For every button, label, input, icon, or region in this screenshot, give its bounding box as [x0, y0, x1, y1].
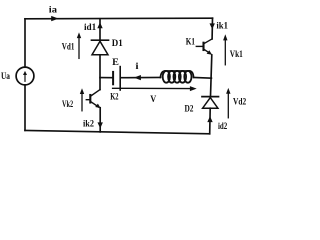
left branch wire lower (K2 to bottom) — [99, 108, 101, 132]
source Ua inner arrow line — [24, 74, 26, 82]
wire left upper — [24, 19, 26, 67]
arrow Vk2 line — [81, 93, 83, 111]
svg-text:D1: D1 — [112, 39, 123, 49]
svg-text:ik1: ik1 — [216, 21, 228, 31]
arrowhead id2 (up) — [207, 116, 212, 122]
source Ua circle — [16, 67, 34, 85]
left branch wire middle (D1 to K2) — [99, 55, 101, 90]
svg-text:D2: D2 — [185, 104, 194, 114]
arrowhead V (right) — [190, 86, 197, 91]
inductor L left shoulder — [160, 71, 165, 78]
arrowhead id1 (up) — [97, 22, 102, 28]
arrowhead ik2 (down) — [98, 122, 103, 128]
right branch wire lower (D2 to bottom) — [209, 108, 212, 134]
transistor K1 base stub — [196, 45, 203, 47]
transistor K1 collector line — [204, 39, 212, 44]
arrow Vd1 line — [78, 38, 80, 59]
svg-text:K1: K1 — [186, 38, 195, 48]
arrowhead Vk2 (up) — [80, 88, 84, 94]
transistor K1 base bar — [202, 43, 204, 50]
wire bottom — [25, 130, 210, 133]
wire middle right (inductor to right branch) — [194, 77, 212, 80]
inductor L right shoulder — [190, 71, 194, 78]
battery E long plate — [119, 67, 121, 90]
svg-text:ik2: ik2 — [83, 120, 94, 130]
arrowhead Vd2 (up) — [226, 88, 230, 94]
svg-text:id2: id2 — [218, 122, 227, 132]
svg-text:V: V — [150, 95, 156, 105]
wire middle (E to inductor) — [121, 76, 161, 78]
diode D2 triangle — [203, 98, 218, 109]
battery E short plate — [112, 72, 114, 84]
svg-text:Vd2: Vd2 — [233, 98, 246, 108]
transistor K2 emitter line — [91, 102, 99, 107]
svg-text:Ua: Ua — [1, 72, 10, 82]
svg-text:i: i — [135, 62, 139, 72]
svg-text:E: E — [112, 58, 119, 68]
transistor K2 base stub — [86, 99, 90, 101]
svg-text:Vk1: Vk1 — [230, 50, 243, 60]
transistor K2 base bar — [89, 95, 91, 103]
arrow Vk1 line — [224, 40, 226, 65]
arrowhead Vk1 (up) — [223, 34, 227, 40]
transistor K2 collector line — [91, 90, 100, 96]
arrowhead K1 emitter — [207, 50, 212, 55]
diode D1 triangle — [92, 41, 108, 55]
arrowhead K2 emitter — [95, 104, 100, 109]
diode D2 bar — [202, 96, 219, 98]
svg-text:id1: id1 — [84, 23, 97, 33]
svg-text:Vk2: Vk2 — [62, 100, 73, 110]
right branch wire middle (K1 to D2) — [211, 55, 212, 96]
wire left lower — [24, 85, 26, 130]
arrow V line — [113, 87, 191, 89]
arrowhead i (left) — [134, 75, 141, 80]
arrow Vd2 line — [227, 93, 229, 118]
arrowhead ia (right) — [51, 16, 58, 21]
arrowhead Ua inner (up) — [23, 71, 27, 75]
arrowhead ik1 (down) — [210, 23, 215, 29]
diode D1 bar — [92, 39, 109, 41]
svg-text:ia: ia — [49, 6, 57, 16]
svg-text:K2: K2 — [110, 93, 118, 103]
svg-text:Vd1: Vd1 — [62, 43, 75, 53]
arrowhead Vd1 (up) — [77, 32, 81, 38]
right branch wire upper (corner to K1) — [211, 18, 213, 39]
inductor L top line — [165, 70, 190, 72]
inductor L loops — [163, 71, 170, 83]
wire middle left (node to E) — [100, 77, 112, 79]
transistor K1 emitter line — [204, 49, 211, 53]
left branch wire upper (top to D1) — [99, 19, 101, 40]
wire top — [25, 17, 213, 20]
